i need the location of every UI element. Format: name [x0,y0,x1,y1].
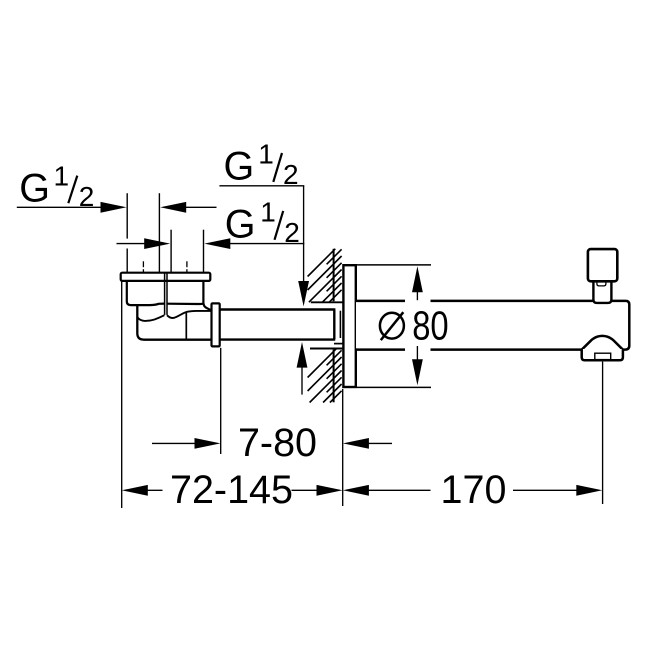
G1/2 label 1 text [19,161,94,212]
wall hatching lower [308,349,342,403]
bar split lines [164,273,166,281]
extension line flange bottom [342,389,344,506]
dim 170 left arrow [343,485,369,496]
svg-text:G: G [225,202,256,246]
G1/2 label 2 underline [219,185,304,187]
supply pipe from elbow to wall [221,310,336,340]
top mounting bar [121,273,211,281]
wall hole edges [310,302,343,348]
leader down arrow at pipe top [298,281,309,306]
pipe end collar at wall [334,310,343,344]
diameter 80 symbol [380,312,404,340]
G1/2 label 2 text [224,138,299,189]
svg-text:80: 80 [412,302,448,348]
diameter 80 text [412,302,448,348]
dim1 arrow left-pointing [160,202,186,213]
G1/2 label 3 text [225,196,300,248]
dim2 left tail [117,243,147,245]
up arrow at pipe bottom [297,342,308,368]
G1/2 label 2 vertical leader [303,186,305,282]
svg-text:72-145: 72-145 [170,468,293,512]
svg-text:1: 1 [260,196,276,227]
diameter 80 down arrow [412,359,423,385]
nut2 outline [167,281,212,311]
elbow boss curve to union [167,311,212,318]
thread 1 extension lines [127,193,159,273]
spout body fill [356,302,628,348]
dim1 right tail [186,206,217,208]
dim 170 right arrow [513,489,577,491]
aerator [595,353,611,359]
dim2 arrow right-pointing [144,238,170,249]
svg-text:2: 2 [79,181,95,212]
elbow upper block fill [127,280,204,304]
extension line union (7-80 left) [220,348,222,454]
elbow body right edge [185,312,187,339]
extension line left (72-145) [121,274,123,508]
thread centerline ticks [143,261,187,272]
dim2 arrow left-pointing [204,238,230,249]
svg-text:1: 1 [54,161,70,192]
diverter knob cap [588,249,617,281]
diverter knob stem notch [597,282,606,286]
spout outlet dome [582,336,623,350]
svg-text:2: 2 [284,217,300,248]
svg-text:170: 170 [441,468,507,512]
dim 72-145 right arrow [292,489,318,491]
diameter 80 bottom extension line [357,386,431,388]
G1/2 label 3 underline / dim2 tail [230,243,304,245]
spout body outline [356,301,629,350]
dim 7-80 right arrow and tail [343,438,369,449]
nut1 outline [127,281,165,306]
svg-text:G: G [224,145,255,189]
escutcheon flange [343,265,355,387]
svg-text:7-80: 7-80 [238,421,317,465]
dim 7-80 left tail and arrow [152,442,196,444]
G1/2 label 1 leader [17,206,103,208]
elbow body left/bottom outline [137,305,211,339]
svg-text:1: 1 [258,138,274,169]
dim 72-145 left arrow [122,485,148,496]
spout outlet block [582,349,623,360]
elbow saddle curve [137,315,164,321]
svg-text:2: 2 [283,159,299,190]
wall face line [333,249,335,402]
nut split lines [164,281,166,315]
up arrow tail [301,367,303,395]
svg-text:G: G [19,167,50,211]
extension line outlet center [602,362,604,504]
union nut on outlet pipe [212,303,220,346]
diverter knob stem [593,281,611,303]
wall hatching upper [308,249,342,302]
diameter 80 up arrow [412,266,423,292]
dim1 arrow right-pointing [101,202,127,213]
diameter 80 top extension line [357,264,431,266]
thread 2 extension lines [171,230,203,274]
